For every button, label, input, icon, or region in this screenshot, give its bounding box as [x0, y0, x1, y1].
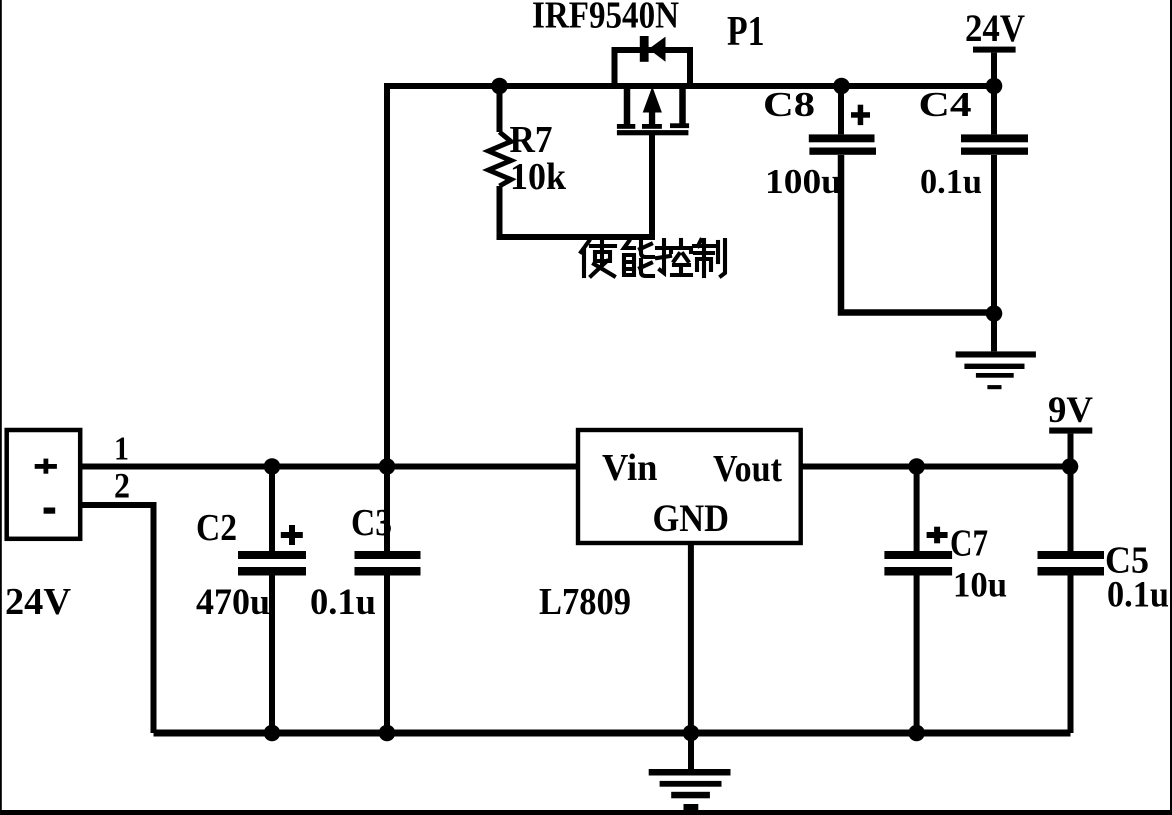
svg-text:R7: R7 — [510, 119, 553, 161]
svg-text:IRF9540N: IRF9540N — [532, 0, 679, 37]
svg-text:0.1u: 0.1u — [920, 162, 982, 201]
svg-text:C2: C2 — [196, 507, 237, 549]
svg-text:C4: C4 — [919, 85, 972, 124]
svg-text:10u: 10u — [953, 565, 1007, 605]
svg-text:2: 2 — [114, 466, 130, 506]
svg-text:GND: GND — [653, 497, 730, 540]
svg-text:L7809: L7809 — [539, 581, 631, 623]
svg-text:C3: C3 — [351, 502, 392, 544]
svg-text:Vin: Vin — [602, 447, 658, 489]
svg-text:24V: 24V — [965, 7, 1025, 50]
svg-text:100u: 100u — [765, 162, 842, 201]
svg-text:C8: C8 — [763, 85, 815, 124]
svg-text:0.1u: 0.1u — [1107, 574, 1169, 615]
svg-text:10k: 10k — [510, 156, 567, 198]
svg-text:C7: C7 — [950, 523, 988, 565]
svg-text:0.1u: 0.1u — [310, 582, 376, 623]
svg-text:P1: P1 — [727, 9, 765, 55]
svg-text:9V: 9V — [1048, 390, 1093, 431]
svg-text:1: 1 — [114, 431, 129, 468]
svg-text:Vout: Vout — [713, 448, 782, 490]
svg-text:470u: 470u — [196, 582, 270, 623]
svg-text:24V: 24V — [5, 581, 72, 623]
